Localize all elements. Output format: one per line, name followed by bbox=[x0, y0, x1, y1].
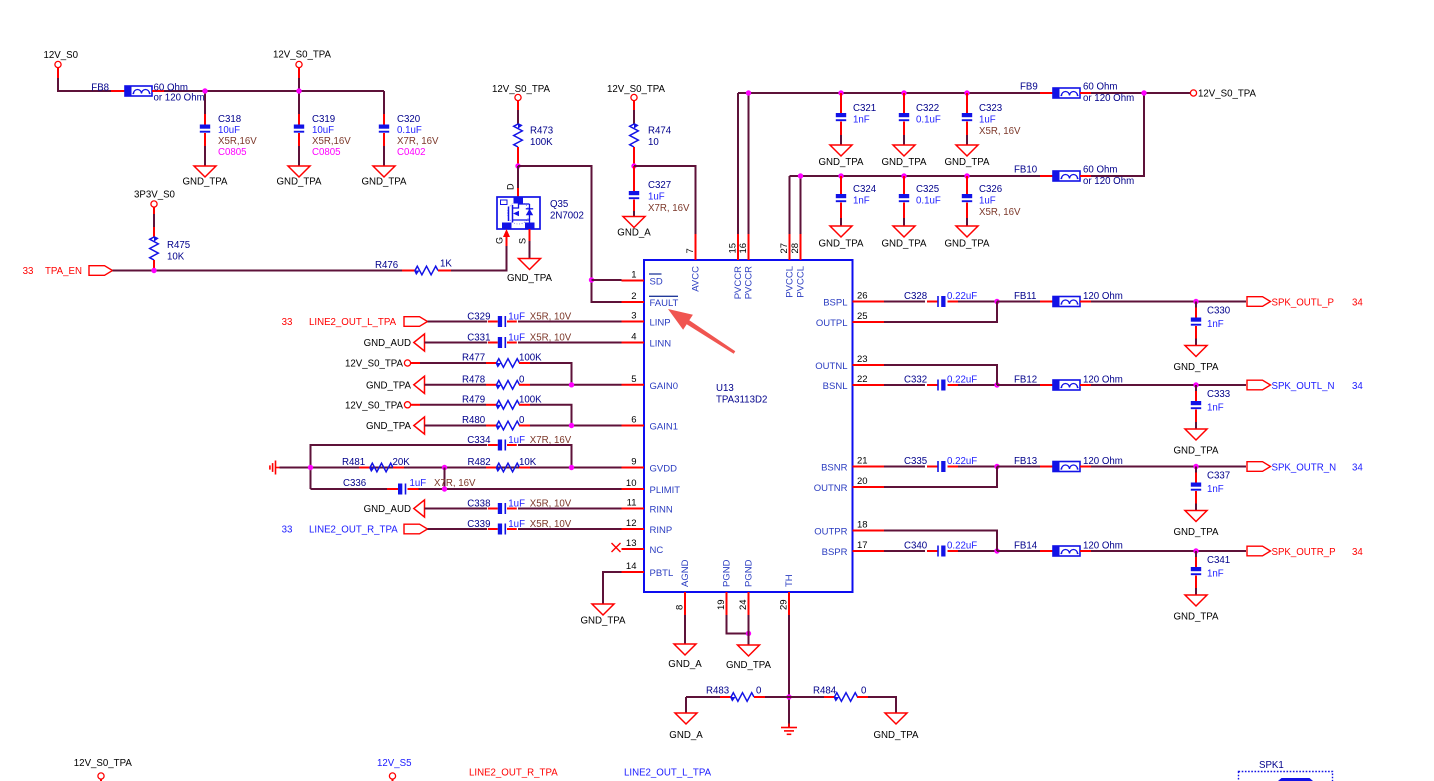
svg-text:29: 29 bbox=[779, 599, 790, 610]
svg-text:PGND: PGND bbox=[744, 559, 755, 587]
svg-text:C0402: C0402 bbox=[397, 147, 426, 158]
svg-text:0: 0 bbox=[519, 415, 525, 426]
svg-text:C334: C334 bbox=[467, 435, 491, 446]
svg-text:SD: SD bbox=[650, 277, 663, 288]
svg-text:12: 12 bbox=[626, 518, 637, 529]
svg-text:X5R, 16V: X5R, 16V bbox=[979, 207, 1021, 218]
svg-text:0.1uF: 0.1uF bbox=[916, 115, 941, 126]
svg-text:C340: C340 bbox=[904, 540, 928, 551]
svg-text:RINP: RINP bbox=[650, 525, 673, 536]
svg-text:FB11: FB11 bbox=[1014, 291, 1036, 302]
svg-text:or 120 Ohm: or 120 Ohm bbox=[154, 92, 205, 103]
svg-text:GND_TPA: GND_TPA bbox=[881, 239, 927, 250]
svg-text:BSNL: BSNL bbox=[823, 381, 848, 392]
svg-text:1: 1 bbox=[631, 270, 636, 281]
svg-text:R478: R478 bbox=[462, 374, 485, 385]
svg-text:28: 28 bbox=[790, 243, 801, 254]
svg-text:12V_S0_TPA: 12V_S0_TPA bbox=[74, 758, 133, 769]
svg-text:FAULT: FAULT bbox=[650, 298, 679, 309]
svg-text:X7R, 16V: X7R, 16V bbox=[397, 136, 439, 147]
svg-text:GND_TPA: GND_TPA bbox=[366, 380, 412, 391]
svg-text:or 120 Ohm: or 120 Ohm bbox=[1083, 93, 1134, 104]
svg-text:FB8: FB8 bbox=[91, 82, 109, 93]
svg-text:33: 33 bbox=[282, 525, 293, 536]
svg-text:C333: C333 bbox=[1207, 389, 1230, 400]
svg-text:24: 24 bbox=[738, 599, 749, 610]
svg-text:LINN: LINN bbox=[650, 339, 672, 350]
svg-text:or 120 Ohm: or 120 Ohm bbox=[1083, 176, 1134, 187]
svg-text:26: 26 bbox=[857, 291, 868, 302]
svg-text:C0805: C0805 bbox=[312, 147, 341, 158]
svg-text:BSNR: BSNR bbox=[821, 463, 848, 474]
svg-text:R480: R480 bbox=[462, 415, 486, 426]
svg-text:LINE2_OUT_L_TPA: LINE2_OUT_L_TPA bbox=[309, 317, 397, 328]
svg-text:C329: C329 bbox=[467, 312, 490, 323]
svg-text:FB13: FB13 bbox=[1014, 456, 1037, 467]
svg-text:GND_TPA: GND_TPA bbox=[361, 177, 407, 188]
svg-text:100K: 100K bbox=[519, 394, 542, 405]
svg-text:20: 20 bbox=[857, 476, 868, 487]
svg-text:12V_S5: 12V_S5 bbox=[377, 758, 411, 769]
svg-text:GND_AUD: GND_AUD bbox=[364, 504, 411, 515]
svg-text:GND_TPA: GND_TPA bbox=[366, 421, 412, 432]
svg-text:GND_TPA: GND_TPA bbox=[1173, 362, 1219, 373]
svg-text:GND_TPA: GND_TPA bbox=[1173, 527, 1219, 538]
svg-text:120 Ohm: 120 Ohm bbox=[1083, 540, 1123, 551]
svg-text:18: 18 bbox=[857, 520, 868, 531]
svg-text:0.22uF: 0.22uF bbox=[947, 291, 977, 302]
svg-text:17: 17 bbox=[857, 540, 868, 551]
svg-text:1uF: 1uF bbox=[648, 192, 665, 203]
svg-text:SPK_OUTL_P: SPK_OUTL_P bbox=[1272, 297, 1334, 308]
svg-text:TPA3113D2: TPA3113D2 bbox=[716, 395, 767, 406]
svg-text:R476: R476 bbox=[375, 260, 398, 271]
svg-text:33: 33 bbox=[23, 266, 34, 277]
svg-text:0.22uF: 0.22uF bbox=[947, 374, 977, 385]
svg-text:C325: C325 bbox=[916, 184, 939, 195]
svg-text:15: 15 bbox=[728, 243, 739, 254]
svg-text:2: 2 bbox=[631, 291, 636, 302]
svg-text:12V_S0_TPA: 12V_S0_TPA bbox=[492, 84, 551, 95]
svg-text:GAIN0: GAIN0 bbox=[650, 381, 679, 392]
svg-text:120 Ohm: 120 Ohm bbox=[1083, 291, 1123, 302]
svg-text:FB12: FB12 bbox=[1014, 374, 1037, 385]
svg-text:1nF: 1nF bbox=[1207, 319, 1224, 330]
svg-text:12V_S0: 12V_S0 bbox=[44, 50, 79, 61]
svg-text:0.1uF: 0.1uF bbox=[916, 196, 941, 207]
svg-text:1nF: 1nF bbox=[1207, 484, 1224, 495]
svg-text:LINP: LINP bbox=[650, 318, 671, 329]
svg-text:GND_A: GND_A bbox=[668, 659, 702, 670]
svg-text:C335: C335 bbox=[904, 456, 927, 467]
svg-text:12V_S0_TPA: 12V_S0_TPA bbox=[345, 400, 404, 411]
svg-text:GND_TPA: GND_TPA bbox=[1173, 612, 1219, 623]
svg-text:C321: C321 bbox=[853, 103, 876, 114]
svg-text:GND_TPA: GND_TPA bbox=[944, 239, 990, 250]
svg-text:33: 33 bbox=[282, 317, 293, 328]
svg-text:10: 10 bbox=[648, 137, 659, 148]
svg-text:R479: R479 bbox=[462, 394, 485, 405]
svg-text:FB9: FB9 bbox=[1020, 82, 1038, 93]
svg-text:12V_S0_TPA: 12V_S0_TPA bbox=[273, 50, 332, 61]
svg-text:R475: R475 bbox=[167, 240, 190, 251]
svg-text:GVDD: GVDD bbox=[650, 464, 678, 475]
svg-text:SPK_OUTR_N: SPK_OUTR_N bbox=[1272, 462, 1337, 473]
svg-text:9: 9 bbox=[631, 457, 636, 468]
svg-text:OUTNR: OUTNR bbox=[814, 483, 848, 494]
svg-text:X5R, 16V: X5R, 16V bbox=[979, 126, 1021, 137]
svg-text:TH: TH bbox=[784, 574, 795, 587]
svg-text:0.1uF: 0.1uF bbox=[397, 125, 422, 136]
svg-text:13: 13 bbox=[626, 538, 637, 549]
svg-text:PGND: PGND bbox=[722, 559, 733, 587]
svg-text:GND_TPA: GND_TPA bbox=[276, 177, 322, 188]
svg-text:C322: C322 bbox=[916, 103, 939, 114]
svg-text:C318: C318 bbox=[218, 114, 241, 125]
svg-text:60 Ohm: 60 Ohm bbox=[1083, 165, 1117, 176]
svg-text:LINE2_OUT_L_TPA: LINE2_OUT_L_TPA bbox=[624, 767, 712, 778]
svg-text:3P3V_S0: 3P3V_S0 bbox=[134, 190, 176, 201]
svg-text:S: S bbox=[518, 238, 528, 244]
svg-text:100K: 100K bbox=[519, 353, 542, 364]
svg-text:C341: C341 bbox=[1207, 555, 1230, 566]
svg-text:C338: C338 bbox=[467, 499, 490, 510]
svg-text:R483: R483 bbox=[706, 686, 729, 697]
svg-text:R477: R477 bbox=[462, 353, 485, 364]
svg-text:6: 6 bbox=[631, 415, 636, 426]
svg-text:Q35: Q35 bbox=[550, 199, 568, 210]
svg-text:LINE2_OUT_R_TPA: LINE2_OUT_R_TPA bbox=[309, 525, 398, 536]
svg-text:R481: R481 bbox=[342, 457, 365, 468]
svg-text:GAIN1: GAIN1 bbox=[650, 422, 679, 433]
svg-text:FB10: FB10 bbox=[1014, 165, 1038, 176]
svg-text:OUTPR: OUTPR bbox=[814, 527, 847, 538]
svg-text:R484: R484 bbox=[813, 686, 837, 697]
svg-text:1nF: 1nF bbox=[853, 196, 870, 207]
svg-text:LINE2_OUT_R_TPA: LINE2_OUT_R_TPA bbox=[469, 767, 558, 778]
svg-text:0.22uF: 0.22uF bbox=[947, 540, 977, 551]
svg-text:BSPL: BSPL bbox=[823, 298, 847, 309]
svg-text:R473: R473 bbox=[530, 126, 553, 137]
svg-text:10uF: 10uF bbox=[218, 125, 240, 136]
svg-text:12V_S0_TPA: 12V_S0_TPA bbox=[345, 359, 404, 370]
svg-text:C319: C319 bbox=[312, 114, 335, 125]
svg-text:12V_S0_TPA: 12V_S0_TPA bbox=[607, 84, 666, 95]
svg-text:PBTL: PBTL bbox=[650, 568, 674, 579]
svg-text:OUTNL: OUTNL bbox=[815, 361, 847, 372]
svg-text:7: 7 bbox=[685, 248, 696, 253]
svg-text:10uF: 10uF bbox=[312, 125, 334, 136]
svg-text:1uF: 1uF bbox=[979, 196, 996, 207]
svg-text:1nF: 1nF bbox=[1207, 403, 1224, 414]
svg-text:RINN: RINN bbox=[650, 505, 673, 516]
svg-text:120 Ohm: 120 Ohm bbox=[1083, 456, 1123, 467]
svg-text:C337: C337 bbox=[1207, 471, 1230, 482]
svg-text:R474: R474 bbox=[648, 126, 672, 137]
svg-text:C320: C320 bbox=[397, 114, 421, 125]
svg-text:AVCC: AVCC bbox=[691, 266, 702, 292]
svg-text:R482: R482 bbox=[468, 457, 491, 468]
svg-text:GND_AUD: GND_AUD bbox=[364, 338, 411, 349]
svg-text:C332: C332 bbox=[904, 374, 927, 385]
svg-text:X7R, 16V: X7R, 16V bbox=[434, 478, 476, 489]
svg-text:2N7002: 2N7002 bbox=[550, 211, 584, 222]
svg-text:23: 23 bbox=[857, 354, 868, 365]
svg-text:10K: 10K bbox=[519, 457, 537, 468]
svg-text:3: 3 bbox=[631, 311, 636, 322]
svg-text:PLIMIT: PLIMIT bbox=[650, 485, 681, 496]
svg-text:X5R,16V: X5R,16V bbox=[218, 136, 257, 147]
svg-text:C328: C328 bbox=[904, 291, 927, 302]
svg-text:22: 22 bbox=[857, 374, 868, 385]
svg-text:X7R, 16V: X7R, 16V bbox=[648, 203, 690, 214]
svg-text:PVCCL: PVCCL bbox=[796, 266, 807, 298]
svg-text:GND_TPA: GND_TPA bbox=[580, 616, 626, 627]
svg-text:1uF: 1uF bbox=[979, 115, 996, 126]
svg-text:GND_TPA: GND_TPA bbox=[507, 273, 553, 284]
svg-text:0: 0 bbox=[861, 686, 867, 697]
svg-text:AGND: AGND bbox=[680, 559, 691, 587]
svg-text:34: 34 bbox=[1352, 462, 1363, 473]
svg-text:GND_TPA: GND_TPA bbox=[881, 157, 927, 168]
svg-text:34: 34 bbox=[1352, 381, 1363, 392]
svg-text:8: 8 bbox=[675, 605, 686, 610]
svg-text:27: 27 bbox=[779, 243, 790, 254]
svg-text:12V_S0_TPA: 12V_S0_TPA bbox=[1198, 89, 1257, 100]
svg-text:C324: C324 bbox=[853, 184, 877, 195]
svg-text:1uF: 1uF bbox=[410, 478, 427, 489]
svg-text:0: 0 bbox=[756, 686, 762, 697]
svg-text:20K: 20K bbox=[393, 457, 411, 468]
svg-text:4: 4 bbox=[631, 332, 636, 343]
svg-text:11: 11 bbox=[627, 498, 637, 509]
svg-text:GND_TPA: GND_TPA bbox=[818, 157, 864, 168]
svg-text:PVCCR: PVCCR bbox=[744, 266, 755, 299]
svg-text:C336: C336 bbox=[343, 478, 366, 489]
svg-text:0: 0 bbox=[519, 374, 525, 385]
svg-text:X5R,16V: X5R,16V bbox=[312, 136, 351, 147]
svg-text:PVCCR: PVCCR bbox=[733, 266, 744, 299]
svg-text:GND_TPA: GND_TPA bbox=[182, 177, 228, 188]
svg-text:C331: C331 bbox=[467, 333, 490, 344]
svg-text:C0805: C0805 bbox=[218, 147, 247, 158]
svg-text:14: 14 bbox=[626, 561, 637, 572]
svg-text:GND_A: GND_A bbox=[617, 228, 651, 239]
svg-text:BSPR: BSPR bbox=[822, 547, 848, 558]
svg-text:G: G bbox=[495, 237, 505, 244]
svg-text:C339: C339 bbox=[467, 519, 490, 530]
svg-text:60 Ohm: 60 Ohm bbox=[1083, 82, 1117, 93]
svg-text:SPK_OUTR_P: SPK_OUTR_P bbox=[1272, 547, 1336, 558]
svg-text:PVCCL: PVCCL bbox=[785, 266, 796, 298]
svg-text:GND_TPA: GND_TPA bbox=[818, 239, 864, 250]
svg-text:GND_TPA: GND_TPA bbox=[873, 730, 919, 741]
svg-text:34: 34 bbox=[1352, 547, 1363, 558]
svg-text:25: 25 bbox=[857, 311, 868, 322]
svg-text:GND_A: GND_A bbox=[669, 730, 703, 741]
svg-text:NC: NC bbox=[650, 545, 664, 556]
svg-text:16: 16 bbox=[738, 243, 749, 254]
svg-text:100K: 100K bbox=[530, 137, 553, 148]
svg-text:D: D bbox=[506, 183, 516, 190]
svg-text:0.22uF: 0.22uF bbox=[947, 456, 977, 467]
svg-text:120 Ohm: 120 Ohm bbox=[1083, 374, 1123, 385]
svg-text:GND_TPA: GND_TPA bbox=[1173, 446, 1219, 457]
svg-text:GND_TPA: GND_TPA bbox=[944, 157, 990, 168]
svg-text:C326: C326 bbox=[979, 184, 1002, 195]
svg-text:34: 34 bbox=[1352, 297, 1363, 308]
svg-text:TPA_EN: TPA_EN bbox=[45, 266, 82, 277]
svg-text:FB14: FB14 bbox=[1014, 540, 1038, 551]
svg-text:10: 10 bbox=[626, 478, 637, 489]
svg-text:5: 5 bbox=[631, 374, 636, 385]
svg-text:C330: C330 bbox=[1207, 306, 1231, 317]
svg-text:GND_TPA: GND_TPA bbox=[726, 660, 772, 671]
svg-text:10K: 10K bbox=[167, 252, 185, 263]
svg-text:SPK1: SPK1 bbox=[1259, 760, 1284, 771]
svg-text:OUTPL: OUTPL bbox=[816, 318, 848, 329]
svg-text:1nF: 1nF bbox=[853, 115, 870, 126]
svg-text:1nF: 1nF bbox=[1207, 569, 1224, 580]
svg-text:SPK_OUTL_N: SPK_OUTL_N bbox=[1272, 381, 1335, 392]
svg-text:C323: C323 bbox=[979, 103, 1002, 114]
svg-text:U13: U13 bbox=[716, 383, 734, 394]
svg-text:C327: C327 bbox=[648, 180, 671, 191]
svg-text:1K: 1K bbox=[440, 259, 452, 270]
svg-text:19: 19 bbox=[716, 599, 727, 610]
svg-text:21: 21 bbox=[857, 456, 868, 467]
